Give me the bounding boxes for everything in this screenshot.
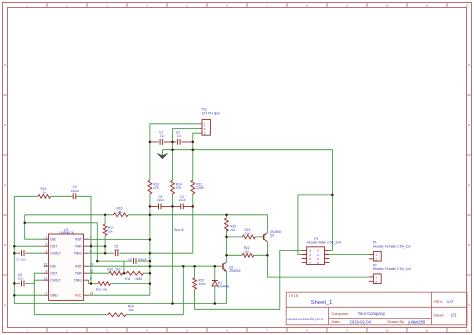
svg-text:10: 10	[385, 4, 389, 8]
svg-text:7: 7	[45, 291, 47, 295]
svg-text:DIS: DIS	[50, 265, 56, 269]
svg-text:470R: 470R	[198, 282, 206, 286]
svg-text:7: 7	[309, 261, 311, 265]
wire VCC column (node VCC)	[89, 142, 150, 295]
svg-text:THR: THR	[75, 272, 82, 276]
svg-text:R10: R10	[107, 267, 113, 271]
svg-text:4: 4	[146, 4, 148, 8]
wire R19-C9 net	[14, 196, 91, 283]
svg-text:6: 6	[226, 4, 228, 8]
svg-text:3: 3	[45, 249, 47, 253]
resistor R17	[104, 215, 106, 253]
svg-text:Header Female 2.54_1x2: Header Female 2.54_1x2	[373, 267, 411, 271]
title block	[286, 292, 467, 325]
svg-text:8: 8	[317, 261, 319, 265]
svg-text:OUT: OUT	[50, 245, 57, 249]
svg-text:RST: RST	[75, 238, 82, 242]
diode D1 1N4448	[214, 266, 216, 303]
svg-text:LM556CN: LM556CN	[59, 231, 74, 235]
wire over-IC loop to TRIG8	[25, 223, 98, 261]
svg-text:Drawn By:: Drawn By:	[388, 320, 406, 324]
svg-text:13: 13	[44, 262, 48, 266]
svg-text:3: 3	[106, 4, 108, 8]
svg-text:E: E	[4, 63, 6, 67]
capacitor C6 + jog	[97, 261, 150, 273]
connector P2 Header Female	[373, 274, 381, 284]
resistor R16	[114, 213, 129, 217]
svg-text:11: 11	[425, 4, 428, 8]
transistor Q1 2N3904	[222, 263, 224, 269]
svg-text:THR: THR	[75, 245, 82, 249]
svg-text:2k2: 2k2	[230, 228, 235, 232]
svg-text:2N3904: 2N3904	[229, 269, 240, 273]
svg-text:1u: 1u	[160, 134, 164, 138]
capacitor C5	[115, 250, 118, 256]
wire R24 rail	[34, 266, 183, 315]
transistor Q2 2N3906	[263, 234, 265, 240]
svg-text:1: 1	[26, 329, 28, 333]
svg-text:12: 12	[465, 329, 469, 333]
wire OUT9 to R24 rail	[34, 273, 43, 315]
capacitor C7 + wire to pin3	[14, 252, 43, 254]
svg-text:A: A	[4, 303, 6, 307]
svg-text:10n: 10n	[18, 277, 23, 281]
resistor R21 row	[227, 236, 264, 238]
svg-text:22uF: 22uF	[157, 198, 164, 202]
capacitor C4	[173, 205, 193, 207]
resistor R13	[148, 180, 152, 194]
svg-text:8: 8	[90, 276, 92, 280]
svg-text:Bus In: Bus In	[174, 228, 184, 232]
connector P11	[202, 120, 211, 136]
svg-text:11: 11	[44, 276, 48, 280]
wire GND row pin7	[14, 294, 43, 296]
svg-text:1/1: 1/1	[451, 313, 457, 318]
wire R12 column	[192, 142, 194, 253]
svg-text:7: 7	[266, 4, 268, 8]
svg-text:22uF: 22uF	[179, 198, 186, 202]
wire P11 pin2 to bus column	[173, 129, 201, 142]
svg-text:DIS: DIS	[50, 238, 56, 242]
svg-text:Date:: Date:	[332, 320, 341, 324]
wire THR12 row + R10 R11	[89, 272, 150, 274]
svg-text:RST: RST	[75, 265, 82, 269]
svg-text:9: 9	[45, 269, 47, 273]
svg-text:B: B	[468, 243, 470, 247]
svg-text:1MΩ: 1MΩ	[135, 277, 142, 281]
svg-text:D: D	[4, 123, 7, 127]
wire Q2 collector down to P2	[267, 242, 369, 278]
connector P3 Header Male 2.54_2x4	[307, 247, 325, 265]
wire P3 pin3 feed	[298, 195, 333, 255]
svg-text:2k2: 2k2	[244, 250, 249, 254]
wire TRIG8 stub row	[88, 280, 90, 283]
wire bus left drop to pin1	[25, 215, 44, 239]
svg-text:4: 4	[146, 329, 148, 333]
resistor R23	[195, 250, 302, 309]
wire RST4 row	[89, 239, 150, 241]
svg-text:6: 6	[90, 249, 92, 253]
svg-text:Your Company: Your Company	[358, 311, 386, 316]
svg-text:1u: 1u	[177, 134, 181, 138]
svg-text:100uF: 100uF	[71, 189, 80, 193]
svg-text:TRIG: TRIG	[74, 252, 82, 256]
svg-text:10: 10	[90, 262, 94, 266]
svg-text:Q2: Q2	[270, 233, 274, 237]
svg-text:Sheet_1: Sheet_1	[311, 300, 333, 306]
svg-text:C: C	[4, 183, 7, 187]
svg-text:TITLE:: TITLE:	[289, 294, 300, 298]
wire P11 pin3 elbow	[193, 133, 201, 142]
resistor R24	[108, 313, 126, 317]
svg-text:GND: GND	[50, 294, 58, 298]
svg-text:easyeda.com/julian256_pcb.v1: easyeda.com/julian256_pcb.v1	[288, 317, 324, 321]
wire TRIG6/C5 row	[89, 252, 193, 254]
svg-text:11: 11	[425, 329, 428, 333]
wire OUT5 row	[14, 245, 43, 247]
svg-text:1: 1	[26, 4, 28, 8]
svg-text:A: A	[468, 303, 470, 307]
svg-text:15k: 15k	[108, 230, 113, 234]
wire P3 pin4 to P1	[329, 254, 369, 256]
svg-text:5: 5	[186, 4, 188, 8]
svg-text:REV:: REV:	[434, 300, 443, 304]
svg-text:9: 9	[346, 329, 348, 333]
svg-text:Sheet:: Sheet:	[433, 313, 444, 317]
svg-text:14: 14	[90, 291, 94, 295]
wire P11 pin1 to VCC column	[150, 124, 201, 142]
svg-text:4: 4	[90, 235, 92, 239]
resistor R15 row	[89, 283, 150, 285]
svg-text:33n: 33n	[114, 248, 119, 252]
svg-text:E: E	[468, 63, 470, 67]
wire Q1 emitter down	[226, 271, 228, 303]
svg-text:47K: 47K	[176, 186, 183, 190]
resistor R11	[126, 271, 143, 275]
wire BusIn column	[172, 142, 174, 304]
svg-text:B: B	[4, 243, 6, 247]
resistor R10	[109, 271, 123, 275]
svg-text:10k: 10k	[245, 231, 250, 235]
connector P1 Header Female	[373, 251, 381, 261]
svg-text:2: 2	[66, 329, 68, 333]
wire main bus	[25, 214, 268, 216]
svg-text:TRIG: TRIG	[74, 279, 82, 283]
svg-text:12: 12	[90, 269, 94, 273]
svg-text:7: 7	[266, 329, 268, 333]
resistor R14	[171, 180, 175, 194]
svg-text:C7 10n: C7 10n	[16, 258, 26, 262]
svg-text:2k2: 2k2	[115, 267, 120, 271]
capacitor C8 + jog to pin11	[14, 280, 43, 283]
svg-text:8: 8	[306, 329, 308, 333]
svg-text:220R: 220R	[196, 186, 204, 190]
svg-text:3: 3	[106, 329, 108, 333]
svg-text:10k: 10k	[129, 308, 134, 312]
resistor R20	[226, 215, 228, 262]
svg-text:1.0: 1.0	[447, 299, 454, 304]
svg-text:R15 10k: R15 10k	[96, 288, 108, 292]
svg-text:Header Male 2.54_2x4: Header Male 2.54_2x4	[307, 241, 341, 245]
resistor R19	[38, 194, 51, 198]
ground	[161, 150, 163, 156]
svg-text:1N4448: 1N4448	[218, 285, 229, 289]
svg-text:Header Female 2.54_1x2: Header Female 2.54_1x2	[373, 244, 411, 248]
wire THR2 row	[89, 245, 106, 247]
svg-text:560pF: 560pF	[138, 257, 147, 261]
wire gnd row to P3 pin2 drop	[162, 150, 332, 251]
wire left VCC-side vertical	[14, 196, 226, 303]
svg-text:10: 10	[385, 329, 389, 333]
svg-text:2: 2	[66, 4, 68, 8]
junction dots	[13, 245, 16, 248]
svg-text:1k: 1k	[43, 191, 47, 195]
svg-text:C: C	[468, 183, 471, 187]
capacitor C3	[150, 205, 173, 207]
svg-text:5: 5	[186, 329, 188, 333]
wire Q2 emitter up to bus	[266, 215, 268, 233]
svg-text:R11: R11	[125, 277, 131, 281]
wire RST10/base row	[89, 265, 224, 267]
capacitor C9	[73, 193, 76, 199]
svg-text:CVOLT: CVOLT	[50, 279, 61, 283]
svg-text:JST PH 3pin: JST PH 3pin	[202, 111, 221, 115]
svg-text:12: 12	[465, 4, 469, 8]
svg-text:C6: C6	[128, 257, 132, 261]
svg-text:15k: 15k	[117, 210, 122, 214]
svg-text:CVOLT: CVOLT	[50, 252, 61, 256]
svg-text:9: 9	[346, 4, 348, 8]
capacitor C2	[173, 141, 193, 143]
svg-text:julian256: julian256	[408, 319, 426, 324]
svg-text:Company:: Company:	[332, 312, 349, 316]
svg-text:6: 6	[226, 329, 228, 333]
resistor R22 row	[227, 254, 268, 256]
resistor R12	[191, 180, 195, 194]
svg-text:8: 8	[306, 4, 308, 8]
svg-text:47K: 47K	[153, 186, 160, 190]
op-amp U3 LM556CN body	[49, 234, 84, 300]
svg-text:VCC: VCC	[75, 294, 83, 298]
svg-text:5: 5	[45, 242, 47, 246]
svg-text:OUT: OUT	[50, 272, 57, 276]
svg-text:D: D	[468, 123, 471, 127]
svg-text:2019-02-04: 2019-02-04	[350, 319, 372, 324]
capacitor C1	[150, 141, 173, 143]
svg-text:1: 1	[45, 235, 47, 239]
